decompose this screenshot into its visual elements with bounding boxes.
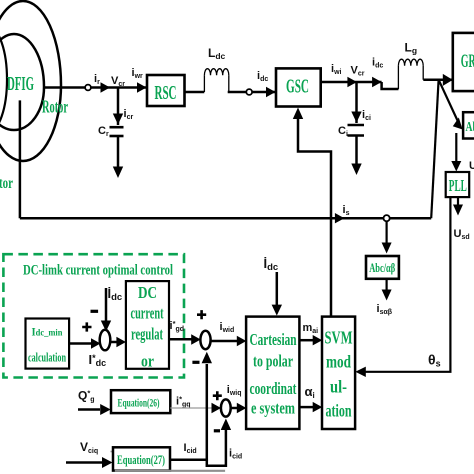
feedback wire SVM to GSC (293, 108, 331, 317)
arrow Vciq into Equation(27) (66, 457, 113, 468)
svg-text:Cartesian: Cartesian (250, 330, 297, 349)
DFIG machine middle ellipse (rotor) (0, 34, 44, 130)
svg-text:Abc/αβ: Abc/αβ (466, 120, 474, 135)
wire DC regulator to junction 2 (169, 334, 201, 344)
svg-text:coordinat: coordinat (250, 379, 297, 398)
stator wire down (19, 100, 22, 218)
wire Lg to grid junction (423, 78, 453, 81)
wire is (long horizontal) (20, 217, 431, 220)
wire Idc_min to junction 1 (69, 338, 100, 348)
svg-text:ation: ation (326, 401, 352, 421)
summing junction 1 (100, 330, 111, 351)
inductor Ldc (204, 69, 228, 92)
plus sign junction 2 (197, 310, 206, 319)
inductor Lg (398, 59, 423, 89)
wire Cr to ground arrow (113, 136, 123, 178)
svg-text:e system: e system (251, 399, 295, 418)
Abc/ab box (clipped right) (463, 112, 474, 138)
svg-text:to polar: to polar (253, 352, 293, 371)
arrow isab output (382, 279, 392, 301)
arrow ir (101, 82, 111, 92)
arrow idc (gsc side) (372, 77, 382, 87)
arrow iwi (347, 77, 357, 87)
gray shadow line bottom (115, 470, 225, 472)
svg-text:Abc/αβ: Abc/αβ (369, 260, 395, 275)
wire node Vcr down to capacitor Cr (117, 88, 120, 126)
wire node to GSC (252, 91, 276, 94)
wire junction 1 to DC regulator (110, 337, 126, 347)
summing junction 3 (221, 399, 231, 416)
Idc_min calculation box (26, 319, 70, 369)
wire junction Vcr down to capacitor Ci (355, 82, 358, 123)
DC current regulator box (126, 281, 169, 370)
wire junction 2 to Cartesian (iwid) (211, 336, 247, 346)
summing junction 2 (200, 331, 210, 349)
arrow icr (113, 114, 123, 125)
svg-text:tor: tor (0, 175, 13, 192)
capacitor Ci plates (348, 125, 365, 136)
node on is line (384, 215, 390, 221)
svg-text:ul-: ul- (330, 377, 347, 397)
wire rotor to node (44, 86, 85, 89)
slanted wire grid junction down to is line (431, 80, 438, 219)
arrow ici (351, 112, 361, 123)
gray tick after Vciq (111, 451, 117, 453)
svg-text:current: current (131, 304, 164, 323)
arrow Q*g into Equation(26) (78, 404, 111, 415)
svg-text:GSC: GSC (286, 77, 309, 98)
GRID box (453, 33, 474, 91)
arrow is (335, 213, 345, 223)
GSC box (276, 68, 321, 106)
dashed box DC-link current optimal control (3, 254, 184, 377)
Equation(26) box (111, 390, 170, 413)
svg-text:Rotor: Rotor (42, 97, 68, 117)
wire Ci to ground arrow (351, 136, 361, 176)
wire RSC to Ldc (185, 91, 205, 94)
wire node down to Abc/ab block (382, 221, 392, 253)
svg-text:Equation(26): Equation(26) (118, 396, 160, 410)
Idc input arrow into junction 1 (101, 288, 111, 332)
plus sign junction 3 (213, 391, 222, 400)
Cartesian to polar coordinate system box (246, 317, 299, 429)
arrow idc into GSC (266, 87, 276, 97)
svg-text:or: or (141, 352, 154, 371)
arrow Idc into Cartesian (272, 272, 282, 316)
svg-text:DC-limk current optimal contro: DC-limk current optimal control (23, 263, 173, 279)
svg-text:PLL: PLL (449, 176, 467, 195)
Equation(27) box (113, 447, 170, 470)
wire GSC to idc arrow (321, 82, 399, 89)
capacitor Cr plates (110, 127, 124, 136)
svg-text:GRID: GRID (461, 51, 474, 72)
node (open circle) rotor output (85, 85, 91, 91)
wire junction 3 to Cartesian (iwiq) (231, 403, 247, 413)
arrow into GRID (443, 74, 453, 86)
SVM modulation box (322, 317, 355, 429)
arrow iwr into RSC (137, 82, 147, 92)
svg-text:SVM: SVM (325, 328, 353, 348)
svg-text:RSC: RSC (155, 83, 177, 104)
svg-text:Equation(27): Equation(27) (117, 453, 165, 467)
PLL box (446, 172, 470, 197)
arrow alpha-i into SVM (299, 402, 322, 412)
thin wire i*gq to junction 3 (170, 407, 214, 409)
arrow mai into SVM (299, 335, 322, 345)
wire PLL down to theta-s into SVM (355, 197, 450, 377)
wire Abc box to PLL (451, 133, 461, 172)
Abc/ab block (isab) (366, 256, 399, 279)
node (open circle) dc link (246, 89, 252, 95)
wire Equation(27) up to junction 2 (icid feedback) (170, 352, 212, 460)
DFIG machine outer ellipse (0, 1, 61, 161)
svg-text:DC: DC (138, 283, 157, 302)
svg-text:calculation: calculation (28, 351, 66, 365)
arrow into junction 3 (212, 403, 222, 413)
arrow Usd below PLL (453, 197, 463, 216)
minus sign junction 1 (91, 310, 99, 313)
wire node to RSC (91, 86, 147, 89)
svg-text:DFIG: DFIG (7, 73, 34, 95)
RSC box (147, 75, 185, 106)
wire Ldc to node (228, 91, 246, 94)
plus sign junction 1 (82, 322, 91, 331)
svg-text:regulat: regulat (131, 325, 163, 344)
minus sign junction 3 (214, 429, 220, 432)
svg-text:mod: mod (326, 352, 351, 372)
wire step to junction 3 (icid feedback) (207, 419, 231, 466)
diagonal wire junction to Abc box (439, 80, 463, 130)
minus sign junction 2 (192, 361, 199, 364)
DFIG machine inner arc (0, 28, 7, 132)
